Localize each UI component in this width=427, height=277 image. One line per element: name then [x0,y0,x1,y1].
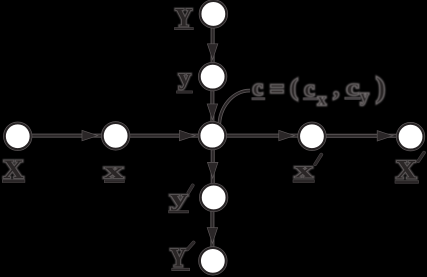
svg-text:c: c [253,75,263,100]
prime of y' [188,185,192,192]
wire x' to X' [325,135,398,137]
arrowhead X to x [82,131,97,141]
underline of Y' [172,268,189,270]
prime core of y' [188,185,192,192]
prime of Y' [188,243,194,250]
underline of Y [175,28,193,30]
prime core of x' [315,155,321,165]
node Y' [200,248,226,274]
svg-text:X: X [396,156,417,185]
node C center [199,123,225,149]
wire Y to y (halo) [211,27,215,63]
wire C to y' [212,149,214,184]
node y [200,64,226,90]
node y' [201,185,227,211]
node x' [299,123,325,149]
prime core of X' [418,153,424,162]
wire y' to Y' [211,210,213,247]
arrowhead C to y' [208,163,218,178]
arrowhead y' to Y' [208,228,218,243]
wire Y to y [212,27,214,63]
svg-text:x: x [104,158,124,183]
svg-text:,: , [333,76,339,101]
node x [103,123,129,149]
prime of x' [315,155,321,165]
wire x' to X' (halo) [325,134,398,138]
node X [5,123,31,149]
pointer curve from formula to node C [219,91,250,128]
prime core of Y' [188,243,194,250]
svg-text:(: ( [290,75,298,100]
arrowhead Y to y [208,44,218,59]
wire x to C (halo) [128,134,199,138]
svg-text:c: c [346,75,359,100]
underline of x' [293,180,314,182]
underline of X' [395,181,418,183]
wire y to C [211,90,213,123]
svg-text:x: x [295,158,313,183]
svg-text:y: y [179,65,192,90]
wire C to x' (halo) [225,134,299,138]
underline of x [105,180,125,182]
pointer curve halo [219,91,250,128]
svg-text:c: c [304,76,314,101]
arrowhead C to x' [279,131,294,141]
underline of c_y [345,97,360,99]
wire X to x [30,135,102,137]
arrowhead y to C [208,104,218,119]
wire C to y' (halo) [211,149,215,184]
svg-text:x: x [318,90,327,109]
wire C to x' [225,135,299,137]
prime of X' [418,153,424,162]
svg-text:): ) [376,73,385,104]
wire y to C (halo) [210,90,214,123]
wire y' to Y' (halo) [210,210,214,247]
underline of y' [169,211,189,213]
underline of formula c [252,98,264,100]
underline of X [3,180,25,182]
svg-text:=: = [270,74,285,105]
wire X to x (halo) [30,134,102,138]
svg-text:y: y [170,186,188,211]
node X' [398,124,424,150]
node Y [200,1,226,27]
underline of y [177,91,193,93]
arrowhead x to C [180,131,195,141]
arrowhead x' to X' [378,131,393,141]
wire x to C [128,135,199,137]
underline of c_x [304,98,318,100]
svg-text:y: y [360,86,369,105]
